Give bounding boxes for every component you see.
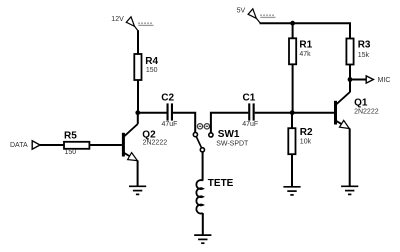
svg-text:R3: R3 — [358, 40, 371, 51]
svg-text:47k: 47k — [299, 51, 311, 58]
ground under Q1 — [341, 186, 358, 194]
svg-text:12V: 12V — [111, 16, 124, 23]
wire SW1 common to TETE — [202, 152, 204, 181]
wire TETE to ground — [202, 213, 204, 235]
inductor TETE — [196, 178, 233, 213]
svg-text:MIC: MIC — [378, 77, 391, 84]
svg-text:5V: 5V — [237, 8, 246, 15]
node A junction — [135, 110, 140, 115]
wire C1 to Q1 base — [255, 112, 334, 114]
wire 5V rail — [260, 23, 351, 38]
wire R4 to node A — [137, 80, 139, 113]
svg-text:15k: 15k — [358, 52, 370, 59]
node D junction — [348, 77, 353, 82]
svg-text:Q1: Q1 — [354, 97, 368, 108]
wire node C to R1 — [292, 23, 294, 38]
wire Q2 collector to node A — [137, 113, 139, 124]
resistor R2 — [288, 127, 313, 154]
ground under TETE — [194, 235, 211, 243]
resistor R1 — [289, 38, 313, 64]
capacitor C1 — [242, 92, 258, 128]
svg-text:TETE: TETE — [208, 178, 234, 189]
wire R2 to ground — [291, 154, 293, 186]
node B junction — [290, 110, 295, 115]
wire node B to R2 — [291, 113, 293, 129]
svg-text:R5: R5 — [64, 131, 77, 142]
resistor R3 — [346, 39, 371, 65]
wire node A to C2 — [138, 112, 167, 114]
wire C2 to SW1 left throw — [173, 113, 195, 133]
power flag 12V — [111, 16, 153, 31]
svg-text:10k: 10k — [300, 138, 312, 145]
wire SW1 right throw to C1 — [211, 113, 248, 133]
svg-text:150: 150 — [146, 67, 158, 74]
switch SW1 — [193, 124, 249, 152]
svg-text:R1: R1 — [299, 39, 312, 50]
svg-text:2N2222: 2N2222 — [354, 108, 379, 115]
svg-text:C2: C2 — [161, 92, 174, 103]
ground under Q2 — [129, 186, 146, 194]
svg-text:2N2222: 2N2222 — [143, 140, 168, 147]
svg-text:SW-SPDT: SW-SPDT — [216, 141, 249, 148]
wire Q1 emitter to ground — [349, 128, 351, 186]
resistor R4 — [134, 54, 158, 80]
ground under R2 — [283, 187, 300, 195]
svg-text:150: 150 — [65, 149, 77, 156]
wire Q2 emitter to ground — [137, 160, 139, 186]
wire DATA to R5 — [40, 144, 64, 146]
wire 12V flag to R4 — [137, 30, 139, 54]
wire R1 to node B — [292, 64, 294, 112]
output port MIC — [350, 76, 390, 84]
svg-text:R2: R2 — [300, 127, 313, 138]
resistor R5 — [64, 131, 89, 157]
svg-text:SW1: SW1 — [218, 129, 240, 140]
svg-text:47uF: 47uF — [242, 121, 258, 128]
node C junction — [290, 21, 295, 26]
transistor Q2 — [122, 124, 167, 161]
svg-text:DATA: DATA — [10, 142, 28, 149]
svg-text:C1: C1 — [243, 92, 256, 103]
input port DATA — [10, 141, 40, 149]
wire R3 to node D — [349, 65, 351, 93]
power flag 5V — [237, 8, 276, 23]
svg-text:47uF: 47uF — [162, 121, 178, 128]
transistor Q1 — [334, 92, 379, 129]
capacitor C2 — [161, 92, 177, 128]
wire R5 to Q2 base — [89, 144, 122, 146]
svg-text:R4: R4 — [145, 56, 158, 67]
